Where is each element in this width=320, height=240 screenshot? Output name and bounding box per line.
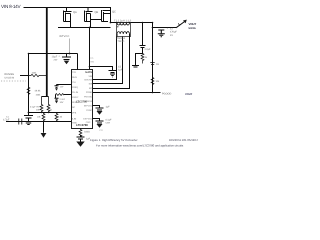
svg-text:PGOOD: PGOOD xyxy=(162,92,172,95)
svg-text:CER: CER xyxy=(106,122,111,125)
svg-text:T1 2.2µH 1:1.5: T1 2.2µH 1:1.5 xyxy=(114,19,132,22)
svg-text:EXTVCC: EXTVCC xyxy=(83,117,92,120)
svg-text:OSC: OSC xyxy=(86,121,91,124)
svg-text:QB: QB xyxy=(95,11,99,14)
svg-text:ILIM: ILIM xyxy=(72,117,76,120)
svg-text:PLLIN: PLLIN xyxy=(72,91,78,94)
svg-text:Figure 1. High Efficiency 5V C: Figure 1. High Efficiency 5V Converter xyxy=(90,138,138,142)
svg-text:QA: QA xyxy=(73,11,77,14)
svg-text:VIN 8-14V: VIN 8-14V xyxy=(1,4,22,9)
svg-text:7343D: 7343D xyxy=(118,40,125,43)
svg-text:0.1µF: 0.1µF xyxy=(106,119,113,122)
svg-text:PG: PG xyxy=(100,129,103,132)
svg-text:VFB: VFB xyxy=(72,111,77,114)
svg-text:5V/4A: 5V/4A xyxy=(189,27,196,30)
svg-text:SENSE: SENSE xyxy=(85,100,93,103)
svg-text:VOUT: VOUT xyxy=(185,93,193,96)
svg-text:For more information www.linea: For more information www.linear.com/LTC3… xyxy=(96,143,184,147)
svg-text:4V: 4V xyxy=(170,34,173,37)
svg-text:TG: TG xyxy=(90,57,93,60)
svg-text:PGND: PGND xyxy=(86,91,93,94)
svg-text:QC: QC xyxy=(112,11,116,14)
svg-text:VIN: VIN xyxy=(89,75,93,78)
svg-text:RUN: RUN xyxy=(72,76,77,79)
svg-text:SSFLT: SSFLT xyxy=(72,96,79,99)
svg-text:INTVCC: INTVCC xyxy=(84,104,93,107)
svg-text:100Ω: 100Ω xyxy=(84,130,90,133)
svg-text:NC: NC xyxy=(72,106,76,109)
svg-text:VOUT: VOUT xyxy=(189,22,197,26)
svg-text:10µF: 10µF xyxy=(52,56,58,59)
svg-text:1nF: 1nF xyxy=(60,85,64,88)
svg-text:0.1µF: 0.1µF xyxy=(30,106,36,109)
svg-text:4.7µF: 4.7µF xyxy=(3,119,10,122)
svg-text:UVLO IN: UVLO IN xyxy=(5,77,15,80)
svg-text:25V: 25V xyxy=(54,59,58,62)
svg-text:2.2nF: 2.2nF xyxy=(60,98,66,101)
svg-text:PA0264: PA0264 xyxy=(117,37,126,40)
svg-text:10V: 10V xyxy=(60,101,64,104)
svg-text:GND: GND xyxy=(72,121,77,124)
svg-text:SYNC: SYNC xyxy=(86,109,92,112)
svg-text:2.2µF: 2.2µF xyxy=(145,48,152,51)
svg-text:DC2297A F01 05/19/17: DC2297A F01 05/19/17 xyxy=(169,138,199,142)
svg-text:1µF: 1µF xyxy=(106,106,111,109)
svg-text:BOOST: BOOST xyxy=(85,79,93,82)
svg-text:BG: BG xyxy=(89,87,92,90)
svg-text:SENSE: SENSE xyxy=(72,101,80,104)
svg-text:FREQ: FREQ xyxy=(72,86,78,89)
svg-text:1µF: 1µF xyxy=(118,68,123,71)
svg-text:ITH: ITH xyxy=(72,81,76,84)
svg-text:49.9k: 49.9k xyxy=(35,90,42,93)
svg-text:GATE: GATE xyxy=(85,71,92,74)
svg-text:PGOOD: PGOOD xyxy=(84,96,93,99)
svg-text:INTVCC: INTVCC xyxy=(59,35,70,38)
